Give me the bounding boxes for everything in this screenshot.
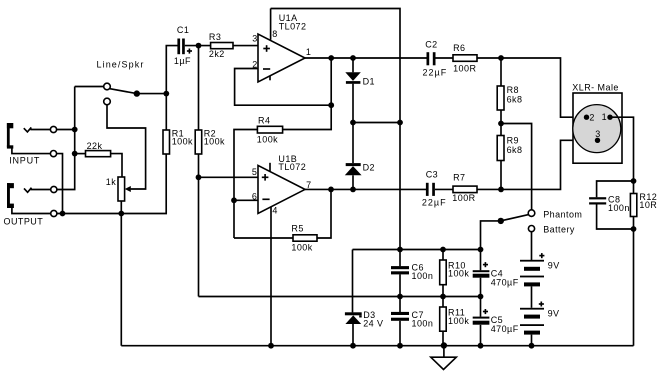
wire output tip to tip node bbox=[57, 87, 75, 190]
B1 polarity plus bbox=[539, 253, 544, 258]
junction U1A feedback bbox=[328, 102, 334, 108]
svg-text:D1: D1 bbox=[363, 76, 375, 86]
wire positive supply top rail bbox=[271, 9, 400, 250]
switch SW2 lever bbox=[501, 215, 529, 221]
wire tip contact to terminal bbox=[30, 129, 50, 131]
junction positive rail C4 bbox=[478, 247, 484, 253]
switch SW2 pole junction bbox=[498, 218, 504, 224]
jack J2 OUTPUT body bbox=[7, 183, 14, 208]
op-amp U1A plus sign bbox=[263, 45, 270, 52]
wire R3 to U1A pin3 bbox=[233, 45, 258, 47]
svg-text:24 V: 24 V bbox=[363, 319, 383, 329]
wire node up to C1 bbox=[166, 46, 177, 94]
junction rail U1B pin4 bbox=[268, 343, 274, 349]
svg-text:9V: 9V bbox=[548, 308, 560, 318]
XLR connector circle bbox=[573, 105, 621, 153]
C5 polarity plus bbox=[483, 309, 488, 314]
wire R4 to U1B pin6 column bbox=[234, 130, 257, 239]
junction mid rail C4 C5 bbox=[478, 294, 484, 300]
wire input sleeve to ground drop bbox=[57, 154, 63, 214]
wire node down to R2 bbox=[198, 46, 200, 130]
wire C4 stub top bbox=[480, 250, 482, 271]
capacitor C1 plates bbox=[177, 39, 184, 55]
wire U1A pin8 supply stub bbox=[270, 9, 272, 40]
wire C5 stub top bbox=[480, 297, 482, 317]
resistor R3 body bbox=[211, 43, 233, 49]
junction R8 top bbox=[498, 55, 504, 61]
resistor 22k bbox=[86, 151, 111, 157]
wire battery B1 to B2 bbox=[531, 286, 533, 307]
B2 polarity plus bbox=[539, 302, 544, 307]
junction pot bottom output sleeve bbox=[118, 211, 124, 217]
wire SW2 pole to positive rail bbox=[481, 221, 501, 250]
junction diode mid node bbox=[350, 120, 356, 126]
svg-text:470µF: 470µF bbox=[491, 277, 519, 287]
diode D1 bbox=[345, 72, 361, 83]
potentiometer VR1 1k body bbox=[118, 177, 125, 201]
wire C6 stub top bbox=[399, 250, 401, 267]
wire R5 to pin6 column bbox=[234, 237, 293, 239]
resistor R9 body bbox=[497, 136, 504, 161]
ground symbol bbox=[431, 357, 457, 369]
wire feedback tap to R4 bbox=[283, 58, 332, 130]
capacitor C5 electrolytic plates bbox=[473, 317, 490, 325]
svg-text:6k8: 6k8 bbox=[507, 95, 523, 105]
svg-text:TL072: TL072 bbox=[278, 162, 306, 172]
junction positive rail C6 bbox=[397, 247, 403, 253]
resistor R10 body bbox=[440, 260, 447, 285]
svg-text:TL072: TL072 bbox=[279, 21, 307, 31]
switch SW2 Phantom contact circle bbox=[528, 210, 535, 217]
wire XLR pin1 to R12 column bbox=[610, 117, 634, 181]
svg-text:100k: 100k bbox=[448, 316, 469, 326]
svg-text:100n: 100n bbox=[608, 203, 630, 213]
wire node down to R1 bbox=[165, 94, 167, 130]
svg-text:100R: 100R bbox=[453, 63, 476, 73]
wire output sleeve bbox=[12, 208, 51, 214]
resistor R12 body bbox=[630, 194, 636, 217]
svg-text:INPUT: INPUT bbox=[9, 155, 40, 165]
wire 22k node to resistor bbox=[75, 153, 86, 155]
svg-text:7: 7 bbox=[306, 180, 311, 190]
resistor R11 body bbox=[440, 307, 447, 331]
junction sleeve ground bbox=[60, 211, 66, 217]
junction U1A output feedback tap bbox=[328, 55, 334, 61]
wire C6 stub bottom bbox=[399, 274, 401, 296]
svg-text:9V: 9V bbox=[548, 260, 560, 270]
wire 22k to pot top bbox=[111, 154, 122, 177]
svg-text:Phantom: Phantom bbox=[543, 209, 582, 219]
svg-text:100k: 100k bbox=[291, 242, 312, 252]
svg-text:22µF: 22µF bbox=[422, 198, 447, 208]
resistor R7 body bbox=[453, 186, 477, 193]
op-amp U1A triangle bbox=[258, 34, 305, 82]
junction 22k tap node bbox=[72, 151, 78, 157]
capacitor C6 plates bbox=[391, 266, 409, 274]
svg-text:1: 1 bbox=[306, 47, 311, 57]
wire U1A pin2 feedback loop bbox=[235, 69, 332, 106]
wire D3 column bbox=[352, 250, 354, 313]
wire mid node to supply column bbox=[353, 122, 400, 124]
terminal circle output sleeve bbox=[51, 210, 57, 216]
svg-text:100R: 100R bbox=[452, 193, 475, 203]
wire C8 bottom row bbox=[597, 205, 634, 230]
junction positive rail R10 bbox=[440, 247, 446, 253]
svg-text:8: 8 bbox=[272, 29, 277, 39]
svg-text:100k: 100k bbox=[172, 136, 193, 146]
junction C8 R12 top bbox=[631, 178, 637, 184]
svg-text:1k: 1k bbox=[106, 177, 116, 187]
op-amp U1B minus sign bbox=[262, 198, 269, 200]
wire pole to C1 node bbox=[137, 93, 167, 95]
switch SW1 Line contact circle bbox=[104, 83, 111, 90]
junction pin5 bias bbox=[196, 174, 202, 180]
svg-text:C1: C1 bbox=[177, 25, 189, 35]
wire pot bottom to ground rail bbox=[120, 201, 122, 346]
op-amp U1B triangle bbox=[258, 165, 305, 213]
junction D1 top bbox=[350, 55, 356, 61]
junction rail C5 bbox=[478, 343, 484, 349]
wire hot output row to XLR pin2 bbox=[477, 58, 587, 117]
XLR pin 2 dot bbox=[584, 115, 589, 120]
resistor R2 body bbox=[195, 130, 202, 154]
jack J1 INPUT body bbox=[7, 123, 13, 149]
junction supply column tap bbox=[397, 120, 403, 126]
svg-text:R7: R7 bbox=[453, 173, 465, 183]
wire U1B pin4 to negative rail bbox=[270, 207, 272, 346]
svg-text:2: 2 bbox=[589, 112, 594, 122]
junction C8 R12 bottom bbox=[631, 226, 637, 232]
wire positive rail bbox=[353, 249, 481, 251]
wire R8 to R9 bbox=[500, 110, 502, 136]
wire R12 bottom to ground rail bbox=[633, 217, 635, 346]
jack J1 tip contact bbox=[24, 127, 32, 131]
resistor R8 body bbox=[497, 86, 504, 110]
wire C2 to R6 bbox=[436, 57, 454, 59]
junction C1 R1 switch node bbox=[163, 91, 169, 97]
junction mid rail C6 C7 bbox=[397, 294, 403, 300]
wire Spkr contact to wiper bbox=[107, 105, 146, 189]
svg-text:C3: C3 bbox=[426, 170, 438, 180]
svg-text:22µF: 22µF bbox=[423, 67, 448, 77]
svg-text:100n: 100n bbox=[412, 318, 434, 328]
wire ground stub bbox=[443, 346, 445, 358]
wire R9 bottom bbox=[500, 161, 502, 190]
wire cold output row to XLR pin3 bbox=[477, 140, 598, 189]
svg-text:Battery: Battery bbox=[543, 224, 575, 234]
diode D2 bbox=[345, 163, 362, 175]
op-amp U1A minus sign bbox=[263, 68, 270, 70]
switch SW2 Battery contact circle bbox=[528, 226, 534, 232]
op-amp U1B unused pin tick bbox=[269, 163, 271, 172]
wire C7 stub top bbox=[399, 297, 401, 313]
XLR connector box bbox=[573, 93, 622, 163]
wire mid rail bbox=[199, 296, 481, 298]
potentiometer VR1 wiper arrow bbox=[125, 186, 131, 192]
capacitor C7 plates bbox=[391, 312, 409, 321]
svg-text:6k8: 6k8 bbox=[507, 145, 523, 155]
wire R5 feedback loop bbox=[317, 189, 331, 238]
capacitor C4 electrolytic plates bbox=[473, 270, 490, 278]
wire R2 bottom to mid rail corner bbox=[198, 154, 200, 297]
svg-text:10R: 10R bbox=[639, 200, 657, 210]
switch SW1 Spkr contact circle bbox=[104, 98, 111, 105]
junction rail battery bbox=[529, 343, 535, 349]
svg-text:4: 4 bbox=[272, 205, 277, 215]
terminal circle input tip bbox=[50, 126, 56, 132]
svg-text:XLR- Male: XLR- Male bbox=[572, 83, 619, 93]
XLR pin 1 dot bbox=[607, 115, 612, 120]
wire C7 stub bottom bbox=[399, 321, 401, 346]
XLR pin 3 dot bbox=[595, 138, 600, 143]
svg-text:R8: R8 bbox=[507, 85, 519, 95]
resistor R4 body bbox=[257, 126, 282, 133]
capacitor C8 plates bbox=[589, 197, 606, 204]
svg-text:470µF: 470µF bbox=[491, 324, 519, 334]
wire R10 R11 bbox=[442, 285, 444, 307]
svg-text:R6: R6 bbox=[453, 43, 465, 53]
wire R2 tap to U1B pin5 bbox=[199, 176, 259, 178]
svg-text:3: 3 bbox=[595, 129, 600, 139]
svg-text:R4: R4 bbox=[258, 115, 270, 125]
junction input tip node bbox=[72, 127, 78, 133]
svg-text:2k2: 2k2 bbox=[209, 49, 225, 59]
wire R10 stub top bbox=[442, 250, 444, 261]
svg-text:OUTPUT: OUTPUT bbox=[4, 217, 44, 227]
op-amp U1A unused pin tick bbox=[269, 76, 271, 81]
wire C8 top row bbox=[597, 181, 634, 197]
wire input tip terminal to node bbox=[57, 129, 75, 131]
wire battery B2 to ground rail bbox=[531, 335, 533, 346]
svg-text:R9: R9 bbox=[507, 136, 519, 146]
wire D1 to mid node bbox=[352, 84, 354, 163]
svg-text:D2: D2 bbox=[363, 162, 375, 172]
resistor R1 body bbox=[163, 130, 170, 154]
resistor R6 body bbox=[453, 55, 477, 62]
wire D3 bottom bbox=[352, 324, 354, 346]
switch SW1 lever bbox=[110, 89, 137, 94]
wire D2 bottom bbox=[352, 175, 354, 189]
wire R8 stub top bbox=[500, 58, 502, 86]
wire U1B output row bbox=[305, 188, 426, 190]
junction R8 R9 phantom tap bbox=[498, 121, 504, 127]
switch SW1 pole junction bbox=[134, 90, 140, 96]
C4 polarity plus bbox=[483, 262, 488, 267]
svg-text:R3: R3 bbox=[209, 32, 221, 42]
wire switch line contact bbox=[75, 86, 104, 88]
wire C1 to R3 node bbox=[185, 45, 211, 47]
battery B1 9V bbox=[520, 260, 544, 287]
C1 polarity plus bbox=[187, 49, 192, 54]
svg-text:1µF: 1µF bbox=[174, 56, 191, 66]
battery B2 9V bbox=[520, 308, 544, 335]
wire R12 stub top bbox=[633, 181, 635, 194]
capacitor C2 plates bbox=[427, 52, 436, 65]
svg-text:Line/Spkr: Line/Spkr bbox=[97, 59, 145, 69]
wire pin6 bbox=[234, 199, 258, 201]
junction U1B output bbox=[328, 187, 334, 193]
terminal circle input sleeve bbox=[50, 151, 56, 157]
zener D3 bbox=[345, 312, 362, 324]
svg-text:C2: C2 bbox=[425, 40, 437, 50]
svg-text:6: 6 bbox=[252, 192, 257, 202]
wire C5 stub bottom bbox=[480, 325, 482, 346]
wire battery switch to battery top bbox=[531, 232, 533, 260]
wire input sleeve bbox=[12, 148, 51, 154]
junction rail C7 bbox=[397, 343, 403, 349]
svg-text:22k: 22k bbox=[87, 141, 103, 151]
junction rail R11 ground bbox=[441, 342, 447, 348]
svg-text:100k: 100k bbox=[448, 269, 469, 279]
wire negative ground rail bbox=[121, 345, 633, 347]
wire U1A output row bbox=[305, 57, 427, 59]
svg-text:100n: 100n bbox=[412, 271, 434, 281]
wire output sleeve row to R1 bottom bbox=[57, 154, 166, 214]
svg-text:1: 1 bbox=[602, 112, 607, 122]
jack J2 tip contact bbox=[24, 188, 32, 193]
svg-text:100k: 100k bbox=[204, 136, 225, 146]
resistor R5 body bbox=[293, 235, 317, 241]
wire R11 bottom bbox=[442, 331, 444, 346]
svg-text:5: 5 bbox=[252, 167, 257, 177]
svg-text:100k: 100k bbox=[257, 134, 278, 144]
capacitor C3 plates bbox=[426, 183, 435, 196]
terminal circle output tip bbox=[51, 186, 57, 192]
wire D1 column top bbox=[352, 58, 354, 72]
junction C1 R2 R3 bbox=[196, 43, 202, 49]
junction R9 bottom bbox=[498, 187, 504, 193]
junction pin6 node bbox=[231, 197, 237, 203]
op-amp U1B plus sign bbox=[262, 174, 269, 181]
junction mid rail R10 R11 bbox=[440, 294, 446, 300]
svg-text:R5: R5 bbox=[291, 224, 303, 234]
svg-text:3: 3 bbox=[252, 33, 257, 43]
junction D2 bottom bbox=[350, 187, 356, 193]
wire C4 stub bottom bbox=[480, 278, 482, 297]
wire out tip contact to terminal bbox=[31, 189, 51, 191]
wire C3 to R7 bbox=[435, 188, 453, 190]
junction rail D3 bbox=[350, 343, 356, 349]
wire phantom feed bbox=[501, 124, 532, 210]
